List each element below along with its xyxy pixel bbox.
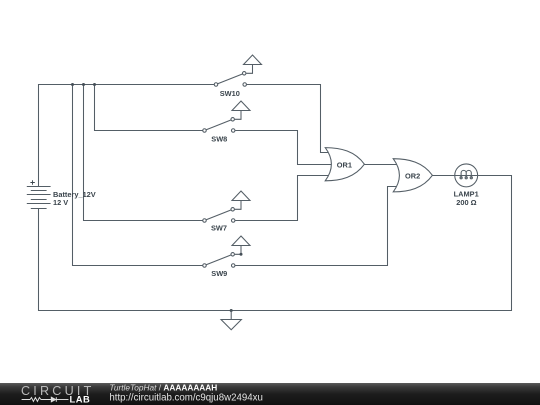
junction dot rail/SW9 bbox=[71, 83, 74, 86]
wire battery top to SW10 common (top rail) bbox=[39, 85, 215, 187]
ground symbol bbox=[221, 311, 241, 330]
svg-text:SW9: SW9 bbox=[211, 269, 227, 278]
svg-text:http://circuitlab.com/c9qju8w2: http://circuitlab.com/c9qju8w2494xu bbox=[109, 393, 262, 404]
wire OR2 output to LAMP1 bbox=[432, 175, 455, 177]
wire rail drop to SW7 common bbox=[84, 85, 204, 221]
wire SW10 throw to OR1 input 1 bbox=[246, 85, 329, 153]
logo waveform and diode bbox=[22, 397, 69, 402]
wire rail drop to SW9 common bbox=[73, 85, 204, 266]
wire SW9 throw to OR2 input 2 bbox=[235, 187, 398, 266]
svg-text:SW7: SW7 bbox=[211, 224, 227, 233]
svg-text:OR1: OR1 bbox=[337, 160, 352, 169]
svg-text:LAB: LAB bbox=[70, 393, 91, 404]
wire OR1 output to OR2 input 1 bbox=[364, 164, 398, 166]
svg-text:LAMP1: LAMP1 bbox=[454, 189, 479, 198]
svg-text:TurtleTopHat / AAAAAAAAH: TurtleTopHat / AAAAAAAAH bbox=[109, 383, 217, 393]
junction dot SW9 throw bbox=[240, 253, 243, 256]
junction dot rail/SW8 bbox=[93, 83, 96, 86]
svg-text:12 V: 12 V bbox=[53, 198, 68, 207]
lamp LAMP1 bbox=[455, 164, 478, 187]
wire SW8 throw to OR1 input 2 bbox=[235, 131, 332, 165]
or-gate OR2 bbox=[393, 159, 432, 192]
svg-text:200 Ω: 200 Ω bbox=[456, 198, 476, 207]
switch SW7 bbox=[203, 191, 250, 222]
junction dot rail/SW7 bbox=[82, 83, 85, 86]
svg-text:SW8: SW8 bbox=[211, 135, 227, 144]
switch SW10 bbox=[214, 55, 261, 86]
svg-text:SW10: SW10 bbox=[220, 89, 240, 98]
junction dot ground bbox=[230, 309, 233, 312]
switch SW8 bbox=[203, 101, 250, 132]
battery V1 Battery_12V bbox=[27, 187, 51, 209]
wire rail drop to SW8 common bbox=[95, 85, 204, 131]
switch SW9 bbox=[203, 236, 250, 267]
battery plus sign bbox=[30, 180, 34, 184]
svg-text:OR2: OR2 bbox=[405, 171, 420, 180]
or-gate OR1 bbox=[325, 148, 364, 181]
wire LAMP1 to bottom rail and battery negative bbox=[39, 176, 512, 311]
footer bar bbox=[0, 383, 540, 405]
wire SW7 throw to OR1 input 3 bbox=[235, 176, 331, 221]
